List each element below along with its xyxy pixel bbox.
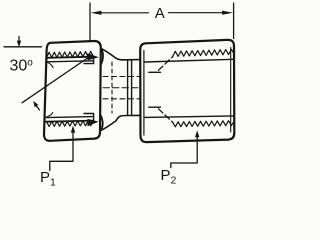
- neck hidden bore line lower: [103, 98, 139, 100]
- nut right face chamfer arc bottom: [101, 116, 103, 131]
- extension line left (dimension A): [89, 3, 91, 42]
- nut top thread base line: [46, 57, 93, 58]
- 30 deg small arrow pointing at diagonal: [33, 101, 39, 110]
- neck centerline dashes: [103, 87, 140, 89]
- nut left face boundary arc bottom: [47, 113, 53, 118]
- neck hidden bore line upper: [103, 76, 139, 78]
- nut left face boundary arc top: [47, 62, 53, 68]
- 30 deg down arrow: [17, 37, 21, 48]
- svg-text:A: A: [155, 5, 165, 22]
- collar edge line 1: [127, 60, 129, 116]
- nut seat cone wedge top: [88, 53, 99, 60]
- svg-text:P2: P2: [161, 167, 177, 187]
- leader P1 arrowhead: [71, 126, 75, 133]
- leader P2 polyline: [171, 136, 197, 168]
- nut seat cone wedge bottom: [88, 119, 99, 126]
- nut seat counterbore step top: [84, 57, 94, 63]
- body top thread zigzag: [173, 49, 234, 56]
- neck top shoulder curve: [101, 48, 140, 60]
- nut bottom thread base line: [46, 121, 93, 122]
- nut top thread minor line: [46, 61, 94, 62]
- nut bottom thread zigzag: [47, 121, 94, 127]
- body bottom thread minor line: [144, 116, 234, 118]
- body right face chamfer inner line: [230, 48, 232, 133]
- body bottom thread zigzag: [173, 121, 234, 127]
- 30 deg reference line: [4, 46, 42, 48]
- collar edge line 2: [131, 60, 133, 116]
- neck bottom shoulder curve: [101, 115, 141, 130]
- body B1 outline: [140, 40, 234, 142]
- nut bottom thread minor line: [46, 117, 94, 118]
- leader P1 polyline: [50, 131, 73, 171]
- body left face chamfer inner line: [143, 51, 145, 136]
- dimension line A left segment with arrowhead: [91, 11, 149, 15]
- svg-text:30o: 30o: [10, 58, 34, 75]
- 30 deg seat angle diagonal line: [22, 55, 93, 103]
- body top thread minor line: [144, 59, 234, 62]
- extension line right (dimension A): [233, 3, 235, 39]
- body bottom hidden bore dash: [149, 106, 161, 108]
- nut top thread zigzag: [47, 51, 94, 57]
- leader P2 arrowhead: [195, 130, 199, 137]
- body bottom countersink hidden diagonal: [159, 109, 174, 123]
- svg-text:P1: P1: [40, 169, 56, 189]
- body top hidden bore dash: [149, 71, 161, 73]
- nut seat counterbore step bottom: [84, 114, 94, 120]
- nut right face chamfer arc top: [101, 50, 103, 65]
- seat plane hidden vertical line: [111, 62, 113, 113]
- dimension line A right segment with arrowhead: [169, 11, 234, 15]
- nut N1 outline: [44, 41, 101, 141]
- body top countersink hidden diagonal: [159, 56, 174, 70]
